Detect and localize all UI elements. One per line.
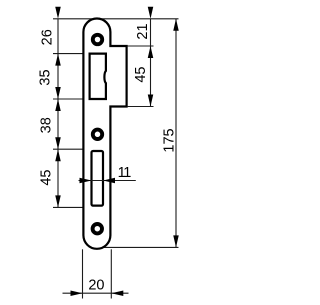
svg-text:45: 45 — [133, 67, 149, 83]
screw hole bottom — [93, 224, 102, 233]
wire right dimension line 21/45 — [150, 19, 152, 107]
arrow dim45R top — [148, 46, 154, 58]
wire latch-bottom extension line — [53, 98, 91, 100]
arrow dim38 bottom — [55, 137, 61, 149]
arrow dim175 bottom — [173, 235, 179, 247]
strike plate outline — [83, 19, 126, 249]
wire latch-top extension line — [53, 53, 91, 55]
wire slot-top extension line — [53, 148, 85, 150]
arrow dim11 left — [80, 178, 92, 184]
svg-text:21: 21 — [135, 23, 151, 39]
latch opening rectangle — [90, 54, 106, 99]
svg-text:38: 38 — [38, 117, 54, 133]
wire bottom extension line 175 — [104, 246, 179, 248]
arrow dim35 bottom — [55, 87, 61, 99]
svg-text:11: 11 — [118, 165, 132, 181]
slot opening — [92, 151, 104, 206]
svg-text:26: 26 — [40, 29, 56, 45]
arrow dim26 top — [55, 7, 61, 19]
arrow dim20 left — [71, 290, 83, 296]
wire left dimension line — [57, 19, 59, 208]
arrow dim175 top — [173, 19, 179, 31]
arrow dim45L top — [55, 149, 61, 161]
wire bottom-right extension line — [110, 249, 112, 298]
svg-text:175: 175 — [162, 128, 178, 152]
wire bottom dimension line 20 — [63, 292, 129, 294]
wire lip-bottom extension line — [128, 106, 154, 108]
wire slot-bottom extension line — [53, 206, 85, 208]
arrow dim45L bottom — [55, 195, 61, 207]
arrow dim11 right — [103, 178, 115, 184]
screw hole middle — [93, 130, 102, 139]
arrow dim35 top — [55, 54, 61, 66]
svg-text:20: 20 — [88, 278, 104, 294]
svg-text:45: 45 — [39, 170, 55, 186]
arrow dim45R bottom — [148, 95, 154, 107]
arrow dim21 top — [148, 7, 154, 19]
wire dimension line 175 — [175, 19, 177, 248]
svg-text:35: 35 — [38, 69, 54, 85]
wire bottom-left extension line — [82, 249, 84, 298]
wire top extension line — [53, 18, 179, 20]
screw hole top — [93, 35, 102, 44]
wire lip-top extension line — [128, 45, 154, 47]
wire slot width dimension line 11 — [79, 180, 136, 182]
arrow dim38 top — [55, 99, 61, 111]
arrow dim20 right — [111, 290, 123, 296]
